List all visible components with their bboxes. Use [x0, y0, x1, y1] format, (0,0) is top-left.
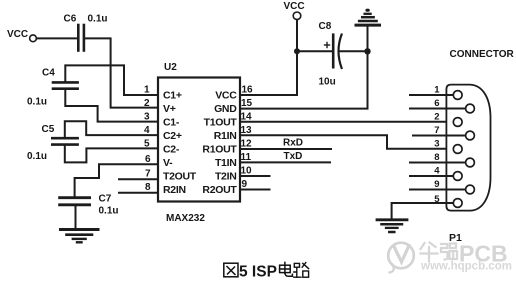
svg-text:U2: U2 — [164, 62, 177, 73]
svg-text:15: 15 — [241, 98, 253, 109]
wire C5 top to U2 pin 4 (C2+) — [65, 121, 158, 137]
IC U2 MAX232 — [144, 62, 253, 224]
svg-text:8: 8 — [145, 182, 151, 193]
wire U2 pin 8 (R2IN) stub — [119, 192, 158, 194]
power VCC (top) — [284, 1, 305, 20]
capacitor C7 — [60, 194, 119, 217]
svg-text:R2OUT: R2OUT — [202, 184, 237, 196]
wire U2 pin 13 (R1IN) to P1 pin 3 — [240, 135, 454, 149]
svg-text:6: 6 — [434, 98, 439, 109]
wire VCC node to C8 — [297, 50, 332, 52]
junction (ground node) — [364, 48, 370, 54]
wire U2 pin 9 (R2OUT) stub — [240, 189, 270, 191]
wire U2 pin 11 (T1IN), node TxD — [240, 151, 330, 162]
svg-text:V-: V- — [163, 157, 173, 169]
svg-text:9: 9 — [434, 179, 439, 190]
svg-text:10u: 10u — [319, 77, 336, 88]
wire P1 pin 5 to ground — [392, 194, 454, 219]
svg-text:5: 5 — [434, 194, 440, 205]
svg-text:V+: V+ — [163, 103, 176, 115]
wire P1 pin 8 stub — [410, 152, 466, 163]
wire C6 to U2 pin 2 (V+) — [86, 38, 158, 107]
wire U2 pin 16 (VCC) to VCC — [240, 20, 297, 95]
svg-text:3: 3 — [434, 139, 439, 150]
capacitor C4 — [27, 68, 78, 108]
wire VCC to C6 — [37, 37, 78, 39]
svg-text:C5: C5 — [42, 124, 55, 135]
svg-text:0.1u: 0.1u — [99, 206, 119, 217]
svg-text:C2+: C2+ — [163, 130, 182, 142]
ground (below P1 pin 5) — [377, 220, 407, 232]
caption: 图5 ISP电路 — [224, 262, 309, 280]
ground (below C7) — [61, 230, 99, 243]
svg-text:1: 1 — [144, 85, 150, 96]
svg-text:R1IN: R1IN — [214, 130, 237, 142]
wire C4 top to U2 pin 1 (C1+) — [65, 65, 158, 95]
watermark logo and text — [388, 241, 512, 273]
svg-text:RxD: RxD — [283, 138, 303, 149]
svg-text:T1OUT: T1OUT — [204, 117, 238, 129]
svg-text:0.1u: 0.1u — [27, 151, 47, 162]
connector P1 (DB9) — [446, 49, 514, 244]
wire P1 pin 9 stub — [410, 179, 466, 190]
svg-text:MAX232: MAX232 — [166, 213, 205, 224]
wire C5 bottom to U2 pin 5 (C2-) — [65, 146, 158, 163]
wire U2 pin 6 (V-) to C7 — [75, 164, 158, 196]
wire P1 pin 1 stub — [410, 85, 454, 96]
wire U2 pin 12 (R1OUT), node RxD — [240, 138, 331, 149]
wire P1 pin 6 stub — [410, 98, 466, 109]
svg-text:8: 8 — [434, 152, 439, 163]
svg-text:C4: C4 — [42, 68, 55, 79]
svg-text:GND: GND — [214, 103, 237, 115]
wire C8 to ground node — [341, 50, 368, 52]
wire U2 pin 10 (T2IN) stub — [240, 175, 270, 177]
svg-text:C6: C6 — [64, 14, 77, 25]
capacitor C5 — [27, 124, 78, 162]
svg-text:7: 7 — [145, 168, 151, 179]
svg-text:TxD: TxD — [284, 151, 303, 162]
svg-text:VCC: VCC — [284, 1, 305, 12]
svg-text:3: 3 — [144, 112, 150, 123]
wire U2 pin 14 (T1OUT) to P1 pin 2 — [240, 121, 454, 123]
svg-text:5 ISP: 5 ISP — [239, 264, 277, 281]
svg-text:C1+: C1+ — [163, 90, 182, 102]
wire ground node to U2 pin 15 (GND) — [240, 51, 368, 108]
svg-text:R1OUT: R1OUT — [202, 144, 237, 156]
wire P1 pin 4 stub — [410, 166, 454, 177]
svg-text:C8: C8 — [319, 21, 332, 32]
junction (VCC node) — [294, 48, 300, 54]
svg-text:4: 4 — [144, 125, 150, 136]
svg-text:C7: C7 — [99, 194, 112, 205]
capacitor C6 — [64, 14, 108, 51]
svg-text:C1-: C1- — [163, 117, 180, 129]
svg-text:www.hqpcb.com: www.hqpcb.com — [420, 261, 512, 273]
wire P1 pin 7 stub — [413, 125, 466, 136]
svg-text:VCC: VCC — [215, 90, 237, 102]
svg-text:2: 2 — [144, 98, 150, 109]
svg-text:7: 7 — [434, 125, 439, 136]
svg-text:CONNECTOR: CONNECTOR — [450, 49, 515, 60]
capacitor C8 — [319, 21, 342, 88]
ground (top, above C8) — [356, 9, 380, 52]
svg-text:R2IN: R2IN — [163, 184, 186, 196]
svg-text:T1IN: T1IN — [215, 157, 237, 169]
power VCC (left) — [7, 29, 36, 42]
svg-text:T2OUT: T2OUT — [163, 171, 197, 183]
svg-text:1: 1 — [434, 85, 440, 96]
wire U2 pin 7 (T2OUT) stub — [119, 178, 158, 180]
svg-text:5: 5 — [144, 139, 150, 150]
svg-text:0.1u: 0.1u — [88, 14, 108, 25]
wire C7 to ground — [75, 206, 77, 229]
connector pin circles — [453, 91, 474, 208]
svg-text:4: 4 — [434, 166, 440, 177]
svg-text:C2-: C2- — [163, 144, 180, 156]
svg-text:2: 2 — [434, 112, 439, 123]
svg-text:0.1u: 0.1u — [27, 97, 47, 108]
svg-text:6: 6 — [145, 154, 151, 165]
svg-text:VCC: VCC — [7, 29, 28, 40]
wire C4 bottom to U2 pin 3 (C1-) — [65, 90, 158, 122]
svg-text:T2IN: T2IN — [215, 171, 237, 183]
